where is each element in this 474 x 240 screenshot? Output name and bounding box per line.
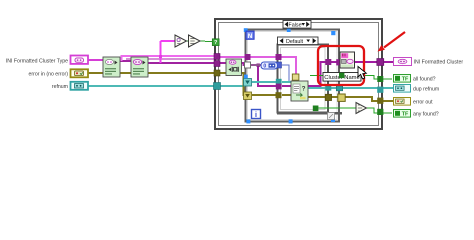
- control terminal: refnum: [71, 82, 89, 90]
- wire: magenta result out of subVI4 up and out to indicator: [308, 62, 393, 86]
- tunnel: magenta lower on outer left: [214, 61, 220, 67]
- selection handles on for loop (blue): [244, 28, 248, 32]
- tunnel: case selector: [212, 39, 219, 46]
- tunnel: magenta on outer right: [377, 59, 384, 66]
- tunnel: magenta on inner case right: [325, 59, 331, 65]
- junction dot pink: [159, 55, 162, 58]
- tunnel: olive on outer left: [214, 70, 220, 76]
- svg-text:i: i: [255, 112, 257, 119]
- for loop frame: [246, 30, 340, 122]
- indicator: any found?: [394, 110, 411, 118]
- shift register left olive: [244, 92, 252, 100]
- tunnel: olive on loop right: [338, 94, 345, 101]
- wire: index pill output into case: [251, 64, 261, 66]
- tunnel: magenta on loop right: [336, 59, 342, 65]
- wire: subVI2 output run to case tunnel: [148, 62, 215, 64]
- tunnel: teal on inner case left: [276, 79, 282, 85]
- svg-text:error out: error out: [413, 100, 433, 106]
- subVI 1: [103, 57, 120, 77]
- svg-text:0: 0: [263, 63, 266, 69]
- case structure outer (False frame): [215, 19, 382, 129]
- indicator: INI Formatted Cluster: [394, 58, 412, 66]
- wire: OR gate output to any found: [366, 108, 392, 113]
- svg-text:TF: TF: [402, 77, 409, 83]
- tunnel: green all-found on outer right: [377, 76, 383, 82]
- wire: error in olive run: [88, 72, 215, 74]
- shift register left teal: [244, 79, 252, 87]
- tunnel: teal on inner case right: [325, 85, 331, 91]
- svg-text:refnum: refnum: [52, 84, 68, 90]
- tunnel: magenta on loop left: [245, 54, 251, 60]
- svg-text:N: N: [248, 33, 253, 40]
- tunnel: magenta on inner case left: [276, 54, 282, 60]
- index pill node: [261, 62, 278, 69]
- subVI 4: [291, 81, 308, 101]
- wire: subVI1 to subVI2 dark magenta: [120, 60, 131, 62]
- tunnel: olive on outer right: [377, 98, 383, 104]
- wire: bright magenta riser to Empty String gate: [160, 41, 162, 63]
- small constant box above subVI4: [292, 74, 299, 80]
- tunnel: teal on outer left: [214, 83, 221, 90]
- wire: tunnel to subVI3 input: [220, 62, 226, 64]
- indicator: error out: [394, 98, 411, 106]
- subVI 3: [226, 59, 242, 76]
- resize glyph inner case bottom right: [328, 113, 335, 120]
- label: Cluster Name: [323, 73, 361, 82]
- case selector label False: [283, 21, 311, 29]
- wire: teal inside loop to subVI4: [252, 81, 276, 83]
- wire: olive error into loop shift register: [220, 72, 226, 74]
- svg-text:any found?: any found?: [413, 112, 439, 118]
- wire: boolean between gates: [186, 40, 189, 42]
- tunnel: magenta2 on inner case left: [276, 84, 282, 90]
- indicator: all found?: [394, 75, 411, 83]
- wire: pink type riser and top run to case tunnel: [122, 56, 216, 61]
- svg-text:Default: Default: [286, 39, 304, 45]
- case structure inner (Default frame): [277, 45, 342, 114]
- wire: refnum teal run: [88, 85, 245, 87]
- gate: Or Array Elements: [356, 103, 367, 114]
- wire: green from case bottom tunnel to OR gate: [316, 106, 357, 108]
- svg-text:INI Formatted Cluster: INI Formatted Cluster: [414, 60, 464, 66]
- red highlight rounded rect: [318, 46, 364, 85]
- control terminal: INI Formatted Cluster Type: [71, 56, 89, 64]
- gate: Empty String?: [175, 35, 187, 47]
- svg-text:INI Formatted Cluster Type: INI Formatted Cluster Type: [6, 58, 68, 64]
- tunnel: teal on outer right: [377, 87, 383, 93]
- constant icon in red highlight (Cluster Name source): [340, 52, 355, 68]
- tunnel: blue on inner case left: [276, 62, 282, 68]
- mouse cursor: [358, 67, 366, 79]
- svg-text:TF: TF: [402, 112, 409, 118]
- svg-text:False: False: [288, 23, 301, 29]
- wire: pink type pass over inside case: [220, 57, 296, 74]
- tunnel: olive on inner case left: [276, 92, 282, 98]
- tunnel: teal on loop right: [336, 84, 342, 90]
- gate: Not: [189, 35, 201, 47]
- wire: subVI3 output with branch down to subVI4: [241, 63, 261, 65]
- tunnel: green on loop right (over label edge): [339, 73, 344, 78]
- tunnel: green on inner case bottom: [313, 106, 319, 112]
- control terminal: error in: [71, 69, 89, 77]
- wire: pink cluster type from terminal to subVI 1: [88, 59, 103, 61]
- wire: dark magenta mid run: [126, 58, 215, 60]
- svg-text:?: ?: [302, 85, 306, 92]
- wire: teal out of subVI4 to dup refnum: [308, 87, 393, 89]
- tunnel: green any-found on outer right: [377, 109, 383, 115]
- indicator: dup refnum: [394, 85, 411, 93]
- svg-text:error in (no error): error in (no error): [29, 72, 69, 78]
- wire: green all found: [310, 76, 392, 80]
- wire: olive error out of subVI4 to error out: [308, 97, 393, 101]
- subVI 2: [131, 57, 148, 77]
- svg-text:all found?: all found?: [413, 77, 436, 83]
- tunnel: grey array on loop left: [245, 62, 251, 68]
- loop count terminal N: [246, 31, 254, 39]
- wire: boolean to case selector: [200, 40, 212, 43]
- svg-text:dup refnum: dup refnum: [413, 87, 439, 93]
- wire: magenta into subVI4: [282, 85, 291, 87]
- tunnel: green on inner case right: [326, 73, 332, 79]
- wire: olive inside loop to subVI4: [252, 94, 276, 96]
- tunnel: olive on inner case right: [325, 94, 331, 100]
- red annotation arrow: [384, 32, 405, 48]
- tunnel: magenta type upper on outer left: [214, 54, 220, 60]
- iteration terminal i: [252, 110, 261, 119]
- case selector label Default: [278, 37, 319, 45]
